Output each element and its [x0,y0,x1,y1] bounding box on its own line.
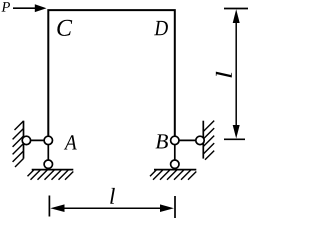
right dimension: label l (rotated) [216,72,232,78]
support B: ground hatching [150,170,196,180]
support B: pin at wall [196,136,204,144]
force P arrowhead [35,4,47,12]
support B: vertical link bar to ground [174,140,176,164]
label B [156,134,168,148]
bottom dimension: label l [110,188,115,204]
support A: vertical link bar to ground [47,140,49,164]
support A: horizontal link bar to wall [26,139,48,141]
support A: ground line [32,169,74,171]
support B: horizontal link bar to wall [175,139,200,141]
support B: wall hatching [203,121,214,160]
frame member C-D with columns (portal frame outline) [48,10,175,140]
right dimension: line shaft [235,19,237,128]
right dimension: bottom extension tick [224,138,245,140]
label A [64,135,77,149]
label C [57,20,72,36]
support B: pin at B [171,136,179,144]
support B: ground line [154,169,196,171]
support A: pin at ground [44,160,52,168]
bottom dimension: right extension tick [174,196,176,218]
bottom dimension: left extension tick [48,196,50,217]
label D [154,21,168,35]
support A: pin at wall [22,136,30,144]
support A: ground hatching [28,170,74,180]
right dimension: upper arrowhead [233,9,240,23]
bottom dimension: left arrowhead [50,204,64,212]
bottom dimension: line shaft [60,207,164,209]
support B: wall line [202,121,204,159]
support A: pin at A [44,136,52,144]
bottom dimension: right arrowhead [160,204,174,212]
right dimension: top extension tick [224,8,248,10]
force P arrow shaft [13,7,37,9]
support A: wall hatching [13,121,24,167]
label P [1,2,10,11]
right dimension: lower arrowhead [233,125,240,139]
support B: pin at ground [171,160,179,168]
support A: wall line [23,121,25,159]
